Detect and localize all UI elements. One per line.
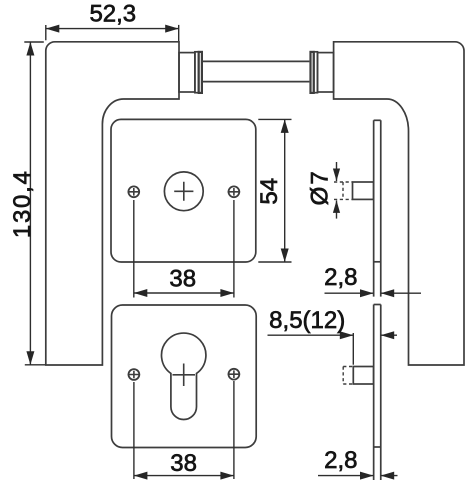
arrow 38 upper right: [220, 289, 234, 297]
upper right screw: [229, 186, 240, 197]
right collar dark ring: [311, 52, 314, 93]
dim 38 upper line: [134, 292, 234, 294]
upper screw boss hidden dashed: [334, 182, 353, 199]
svg-text:38: 38: [169, 266, 196, 293]
dim 38 lower line: [134, 475, 234, 477]
arrow 2,8 upper left-pointing: [381, 289, 395, 297]
arrow 8,5(12) plate left-pointing: [381, 331, 395, 339]
lower plate top edge: [374, 304, 381, 306]
left collar ring: [195, 52, 199, 93]
lower rosette PZ cylinder cutout: [162, 333, 206, 419]
upper screw boss solid: [353, 182, 374, 199]
dim 130,4 extension lines: [24, 41, 44, 43]
svg-text:54: 54: [256, 178, 283, 205]
dim 130,4 line: [29, 42, 31, 365]
lower screw boss hidden dashed: [343, 367, 353, 385]
svg-text:2,8: 2,8: [324, 447, 357, 474]
arrow 2,8 lower right-pointing: [360, 472, 374, 480]
side view plate left face line: [373, 120, 375, 480]
dim 38 upper extension lines: [133, 200, 135, 298]
arrow 38 lower left: [134, 472, 148, 480]
svg-text:38: 38: [170, 450, 197, 477]
right handle outline: [334, 42, 464, 365]
lower plate bottom edge: [374, 446, 381, 448]
dim Ø7 arrow lines: [336, 162, 338, 181]
upper plate top edge: [374, 119, 381, 121]
arrow 38 lower right: [220, 472, 234, 480]
left collar dark ring: [199, 52, 202, 93]
dim 54 line: [284, 119, 286, 262]
dim 54 extension lines: [258, 118, 291, 120]
left handle neck: [179, 53, 195, 92]
arrow 54 up: [281, 119, 289, 132]
upper rosette spindle hole circle: [164, 172, 203, 211]
arrow 2,8 upper right-pointing: [360, 289, 374, 297]
upper rosette center cross: [174, 182, 193, 201]
lower rosette center cross: [173, 364, 196, 387]
arrow 2,8 lower left-pointing: [381, 472, 395, 480]
upper rosette: [111, 119, 256, 262]
svg-text:130,4: 130,4: [9, 171, 36, 238]
arrow 52,3 right: [165, 25, 179, 33]
svg-text:2,8: 2,8: [324, 264, 357, 291]
side view plate right face line: [380, 120, 382, 480]
arrow 52,3 left: [46, 25, 60, 33]
dim 8,5(12) leader line: [268, 334, 354, 336]
svg-text:52,3: 52,3: [89, 1, 136, 28]
lower right screw: [229, 369, 240, 380]
dim 2,8 lower lines: [318, 475, 374, 477]
upper plate bottom edge: [374, 261, 381, 263]
lower screw boss solid: [353, 367, 373, 385]
svg-text:Ø7: Ø7: [306, 171, 333, 205]
arrow Ø7 down: [333, 169, 340, 182]
dim 52,3 extension lines: [45, 25, 47, 40]
arrow 130,4 up: [26, 42, 34, 56]
lower left screw: [129, 369, 140, 380]
arrow 38 upper left: [134, 289, 148, 297]
arrow 130,4 down: [26, 351, 34, 365]
dim 38 lower extension lines: [133, 382, 135, 479]
right collar ring: [314, 52, 318, 93]
arrow 8,5(12) right: [340, 331, 354, 339]
left handle outline: [46, 42, 179, 365]
upper left screw: [128, 186, 139, 197]
arrow 54 down: [281, 249, 289, 263]
lower rosette: [112, 305, 257, 448]
right handle neck: [318, 53, 334, 92]
arrow Ø7 up: [333, 200, 340, 213]
dim 2,8 upper lines: [325, 292, 374, 294]
svg-text:8,5(12): 8,5(12): [269, 307, 345, 334]
spindle: [203, 60, 310, 62]
dim 52,3 line: [46, 28, 179, 30]
